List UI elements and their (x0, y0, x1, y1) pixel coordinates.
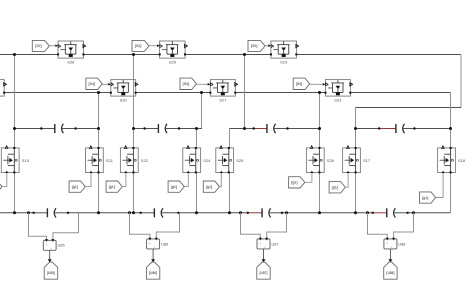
svg-text:S22: S22 (141, 158, 149, 163)
svg-text:[S4]: [S4] (183, 82, 189, 86)
mosfet S25 vertical (216, 148, 234, 173)
wire gate tag 6 (305, 174, 312, 183)
mosfet S30 (111, 80, 136, 97)
node bottom rail / rail S26 (318, 211, 321, 214)
signal wire U86 to goto tag (152, 249, 154, 260)
wire gate tag 2 (85, 174, 91, 187)
wire tap right to U85 (53, 213, 79, 241)
capacitor C4 (379, 128, 396, 130)
wire rail B1 lower (98, 173, 100, 213)
svg-text:[g1]: [g1] (206, 185, 212, 189)
node bottom rail / rail S25 (228, 211, 231, 214)
wire cap row4 segment (356, 128, 380, 130)
from tag [g1] gate 2 (69, 181, 85, 192)
wire tag to S30 gate (102, 83, 108, 85)
wire tag to S28 gate (49, 45, 55, 47)
mosfet S24 vertical (183, 148, 201, 173)
node cap row1 right / rail B1 (97, 127, 100, 130)
node bottom rail tap U87+ (239, 211, 242, 214)
node bottom rail tap U88+ (366, 211, 369, 214)
wire rail A4 lower (355, 173, 357, 213)
node bus / rail A1 (13, 53, 16, 56)
svg-text:S24: S24 (203, 158, 211, 163)
wire cap row2 segment (134, 128, 145, 130)
svg-text:[U85]: [U85] (47, 271, 55, 275)
svg-text:S21: S21 (106, 158, 114, 163)
svg-text:S19: S19 (280, 59, 288, 64)
svg-text:+: + (259, 241, 261, 245)
goto tag [U87] (257, 262, 270, 279)
mosfet S26 vertical (306, 148, 324, 173)
signal wire U88 to goto tag (389, 249, 391, 260)
wire gate tag 4 (184, 174, 188, 187)
signal wire U87 to goto tag (263, 249, 265, 260)
wire rail S24 lower (196, 173, 198, 213)
mosfet S28 (58, 41, 84, 58)
from tag [S2] for S28 (32, 40, 49, 51)
svg-text:[g1]: [g1] (332, 185, 338, 189)
node cap row3 / rail A3 (243, 127, 246, 130)
svg-text:[S2]: [S2] (35, 44, 41, 48)
svg-text:U86: U86 (161, 242, 168, 246)
svg-text:[U86]: [U86] (149, 271, 157, 275)
svg-text:U88: U88 (398, 242, 405, 246)
wire rail S25 upper (229, 129, 231, 148)
goto tag [U85] (44, 262, 58, 279)
wire tag to S19 gate (265, 45, 268, 47)
from tag [g1] gate 5 (203, 181, 219, 192)
wire gate tag 8 (436, 174, 443, 198)
capacitor C2 (145, 128, 159, 130)
wire rail S18 lower (450, 173, 452, 213)
node cap row3 right / rail B3 (318, 127, 321, 130)
wire tap right to U86 (156, 213, 179, 239)
wire rail S25 lower (229, 173, 231, 213)
node bus / rail A3 (243, 53, 246, 56)
node bottom rail tap U85+ (27, 211, 30, 214)
mosfet S29 partial (0, 80, 4, 97)
svg-text:S18: S18 (458, 158, 466, 163)
node cap row2 left / rail A2 (132, 127, 135, 130)
wire rail S18 upper (450, 93, 452, 148)
svg-text:[S2]: [S2] (251, 44, 257, 48)
wire bus drop right (460, 55, 462, 108)
svg-text:[S4]: [S4] (296, 82, 302, 86)
wire rail B3 lower (319, 173, 321, 213)
mosfet S17 vertical (343, 148, 361, 173)
node bottom rail / rail A2 (132, 211, 135, 214)
svg-text:U85: U85 (58, 244, 65, 248)
svg-text:[g1]: [g1] (291, 181, 297, 185)
wire tag to S23 gate (310, 83, 323, 85)
wire rail A2 lower (133, 173, 135, 213)
from tag [g1] gate 1 (0, 181, 2, 192)
svg-text:[U87]: [U87] (260, 271, 268, 275)
from tag [S4] for S27 (180, 78, 196, 89)
wire gate tag 1 (2, 174, 7, 187)
node cap row2 / rail S24 (195, 127, 198, 130)
wire rail S24 upper (196, 129, 198, 148)
svg-text:S25: S25 (169, 59, 177, 64)
node bottom rail / rail B1 (97, 211, 100, 214)
wire rail B2 jog (201, 93, 203, 129)
from tag [g1] gate 3 (106, 181, 122, 192)
mosfet S25b (160, 41, 186, 58)
from tag [g1] gate 8 (420, 192, 436, 203)
wire bus jog (356, 107, 462, 109)
wire gate tag 5 (220, 174, 222, 187)
from tag [S2] for S25b (132, 40, 149, 51)
mosfet S27 (210, 80, 235, 97)
svg-text:[g1]: [g1] (72, 185, 78, 189)
wire rail A2 upper (133, 55, 135, 148)
voltage measurement U86 (147, 239, 160, 249)
capacitor C5 (34, 212, 48, 214)
from tag [S2] for S19 (248, 40, 265, 51)
wire tap right to U88 (394, 213, 414, 239)
wire rail A3 stub (244, 55, 246, 129)
svg-text:S25: S25 (236, 158, 244, 163)
wire rail A1 upper (14, 55, 16, 148)
mosfet S22 vertical (120, 148, 138, 173)
wire rail B1 upper (98, 93, 100, 148)
wire tap left to U87 (241, 213, 261, 239)
capacitor C8 (373, 212, 387, 214)
svg-text:[S2]: [S2] (135, 44, 141, 48)
node bottom rail tap U87- (285, 211, 288, 214)
from tag [S4] for S23 (293, 78, 309, 89)
wire gate tag 7 (345, 174, 348, 188)
node bus / rail A2 (132, 53, 135, 56)
svg-text:S30: S30 (120, 97, 128, 102)
mosfet S21 vertical (86, 148, 104, 173)
wire tap left to U86 (130, 213, 150, 239)
mosfet S23 (325, 80, 350, 97)
svg-text:[g1]: [g1] (422, 196, 428, 200)
from tag [g1] gate 6 (289, 177, 305, 188)
svg-text:S28: S28 (67, 59, 75, 64)
svg-text:U87: U87 (272, 242, 279, 246)
svg-text:+: + (386, 241, 388, 245)
node cap row1 left / rail A1 (13, 127, 16, 130)
wire tag to S27 gate (196, 83, 208, 85)
node bottom rail / rail S24 (195, 211, 198, 214)
voltage measurement U87 (257, 239, 270, 249)
wire tap left to U88 (368, 213, 388, 239)
voltage measurement U85 (43, 240, 56, 250)
node phase wire / rail B3 (318, 91, 321, 94)
svg-text:S23: S23 (334, 97, 342, 102)
svg-text:[g1]: [g1] (109, 185, 115, 189)
node bottom rail / rail A4 (354, 211, 357, 214)
capacitor C3 (254, 128, 267, 130)
from tag [S4] for S30 (86, 78, 102, 89)
node phase wire / rail B2 jog (200, 91, 203, 94)
wire rail A2 crossing S30 (133, 80, 135, 97)
node cap row4 left / rail A4 (354, 127, 357, 130)
mosfet S15 vertical (1, 148, 19, 173)
wire cap row3 segment (230, 128, 254, 130)
capacitor C7 (248, 212, 262, 214)
wire tap left to U85 (29, 213, 47, 241)
mosfet S19 (271, 41, 297, 58)
goto tag [U88] (384, 262, 397, 279)
goto tag [U86] (146, 262, 159, 279)
wire bottom rail (0, 212, 34, 214)
svg-text:S26: S26 (327, 158, 335, 163)
mosfet S18 vertical (438, 148, 456, 173)
svg-text:[U88]: [U88] (386, 271, 394, 275)
svg-text:S27: S27 (219, 97, 227, 102)
svg-text:+: + (149, 241, 151, 245)
svg-text:[S4]: [S4] (89, 82, 95, 86)
wire cap row1 segment (15, 128, 42, 130)
node bottom rail / rail A1 (13, 211, 16, 214)
wire rail B3 upper (319, 93, 321, 148)
from tag [g1] gate 7 (329, 182, 345, 193)
capacitor C1 (41, 128, 54, 130)
wire tap right to U87 (267, 213, 287, 239)
svg-text:[g1]: [g1] (171, 185, 177, 189)
svg-text:S15: S15 (22, 158, 30, 163)
svg-text:+: + (46, 243, 48, 247)
node bottom rail tap U88- (412, 211, 415, 214)
wire tag to S25b gate (149, 45, 157, 47)
capacitor C6 (141, 212, 155, 214)
wire rail A4 upper (355, 108, 357, 148)
node phase wire / rail B1 (97, 91, 100, 94)
signal wire U85 to goto tag (49, 250, 51, 259)
wire rail A1 lower (14, 173, 16, 213)
wire row2 phase (4, 92, 450, 94)
wire gate tag 3 (122, 174, 126, 187)
svg-text:S17: S17 (363, 158, 371, 163)
from tag [g1] gate 4 (168, 181, 184, 192)
wire top bus (0, 54, 461, 56)
voltage measurement U88 (384, 239, 397, 249)
node bottom rail tap U86+ (128, 211, 131, 214)
node cap row4 right / rail S18 (449, 127, 452, 130)
